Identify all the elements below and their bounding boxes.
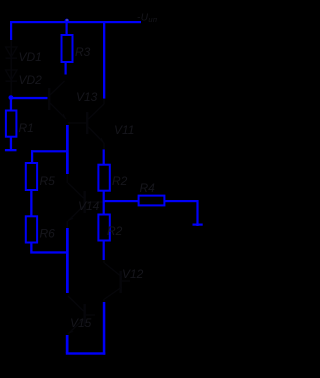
wire top supply rail bbox=[10, 21, 141, 23]
wire VT5 emitter stub bbox=[66, 335, 69, 353]
transistor VT3 (dark) bbox=[48, 81, 98, 119]
wire R6 bottom lead bbox=[30, 243, 32, 252]
resistor R5 bbox=[26, 163, 55, 190]
resistor R2 (right upper) bbox=[98, 165, 127, 191]
wire VT3 emitter vertical (W1) bbox=[66, 125, 69, 174]
wire VT4 emitter vertical (W3) bbox=[66, 228, 69, 293]
wire W2 corner down to R5 bbox=[31, 150, 33, 163]
transistor VT1 (dark) bbox=[68, 99, 134, 149]
svg-text:V12: V12 bbox=[122, 267, 144, 281]
wire bottom of R6 chain horizontal bbox=[30, 251, 67, 253]
svg-text:R6: R6 bbox=[40, 227, 56, 241]
svg-text:-Uип: -Uип bbox=[137, 13, 157, 25]
resistor R1 bbox=[6, 99, 34, 150]
transistor VT4 (dark) bbox=[67, 174, 103, 228]
svg-text:R1: R1 bbox=[19, 121, 34, 135]
node diode/R1 junction dot bbox=[9, 95, 14, 100]
ground output terminal bar bbox=[193, 224, 203, 226]
wire R5-R6 lead bbox=[30, 190, 32, 217]
wire R2-R7 junction lead bbox=[103, 191, 105, 216]
svg-text:R3: R3 bbox=[75, 45, 91, 59]
wire VT3 base wire bbox=[10, 97, 48, 99]
diode VD1 bbox=[6, 40, 42, 95]
wire right vertical up to VT2 bbox=[103, 302, 106, 355]
svg-text:V14: V14 bbox=[78, 199, 100, 213]
svg-text:R2: R2 bbox=[107, 224, 123, 238]
svg-text:VD1: VD1 bbox=[19, 50, 42, 64]
node junction dot on rail at R3 top bbox=[65, 19, 69, 23]
svg-text:VD2: VD2 bbox=[19, 73, 43, 87]
resistor R3 bbox=[62, 23, 91, 75]
svg-text:R2: R2 bbox=[112, 174, 128, 188]
svg-text:V15: V15 bbox=[70, 316, 92, 330]
svg-text:V13: V13 bbox=[76, 90, 98, 104]
svg-text:V11: V11 bbox=[114, 123, 134, 137]
diode VD2 bbox=[6, 70, 43, 87]
wire bottom horizontal bbox=[66, 352, 106, 354]
wire W2 horizontal to R5 chain bbox=[31, 150, 66, 152]
resistor R4 (horizontal) bbox=[139, 181, 165, 205]
wire left stub from rail down to diode VD1 bbox=[10, 21, 12, 40]
wire VT1 collector vertical from rail bbox=[103, 23, 105, 99]
svg-text:R5: R5 bbox=[40, 174, 56, 188]
wire VT1 emitter lead down to R2 bbox=[103, 149, 105, 165]
wire output terminal drop bbox=[196, 200, 198, 226]
transistor VT2 (dark) bbox=[104, 260, 144, 302]
wire from R4 to output terminal bbox=[165, 200, 199, 202]
wire from junction to R4 bbox=[104, 200, 139, 202]
svg-text:R4: R4 bbox=[140, 181, 156, 195]
resistor R7 (right lower) bbox=[98, 215, 122, 241]
wire R7 bottom lead to VT2 bbox=[103, 241, 105, 261]
ground under R1 bbox=[5, 149, 17, 151]
transistor VT5 (dark) bbox=[68, 296, 95, 334]
resistor R6 bbox=[26, 216, 55, 242]
